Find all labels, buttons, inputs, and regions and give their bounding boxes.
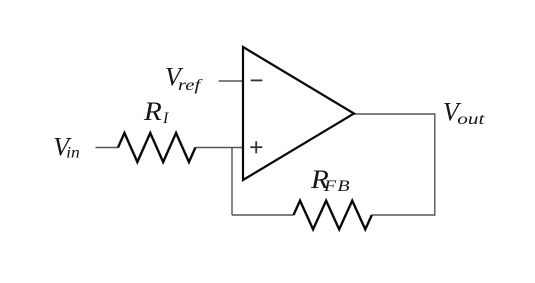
svg-text:FB: FB bbox=[323, 177, 351, 195]
svg-text:out: out bbox=[457, 110, 485, 128]
svg-text:in: in bbox=[66, 143, 80, 161]
svg-text:ref: ref bbox=[178, 76, 204, 94]
svg-text:I: I bbox=[162, 110, 169, 127]
svg-text:R: R bbox=[143, 96, 162, 125]
